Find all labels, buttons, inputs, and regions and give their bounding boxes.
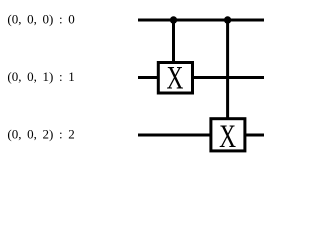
wire qubit 0: [138, 19, 264, 22]
svg-text:(0, 0, 2) : 2: (0, 0, 2) : 2: [7, 127, 74, 142]
wire qubit 2: [138, 134, 264, 137]
gate box X (qubit 2): [211, 119, 245, 151]
svg-text:(0, 0, 0) : 0: (0, 0, 0) : 0: [7, 12, 74, 27]
svg-text:X: X: [219, 119, 236, 155]
gate box X (qubit 1): [158, 63, 192, 94]
wire qubit 1: [138, 76, 264, 79]
wire: control line CNOT 2: [226, 20, 229, 119]
wire: control line CNOT 1: [172, 20, 175, 62]
svg-text:X: X: [166, 61, 183, 97]
control dot CNOT 2: [224, 16, 231, 23]
control dot CNOT 1: [170, 16, 177, 23]
svg-text:(0, 0, 1) : 1: (0, 0, 1) : 1: [7, 69, 74, 84]
